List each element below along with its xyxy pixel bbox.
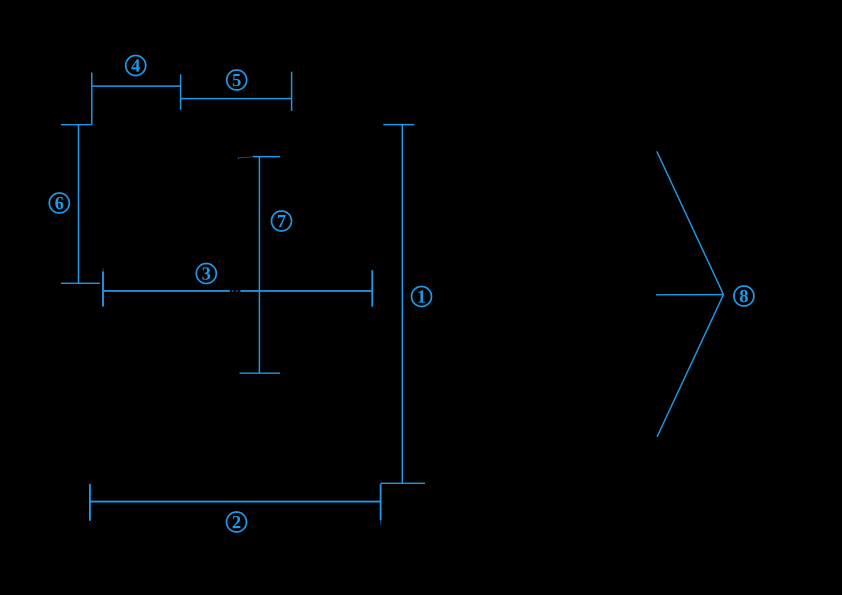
label 1 circled xyxy=(412,287,432,307)
dimension 1 stem xyxy=(401,125,403,484)
label 6 circled xyxy=(49,193,69,213)
dimension 7 top tick faint left part xyxy=(240,157,254,158)
dimension 3 dotted gap dots xyxy=(232,290,238,292)
dimension 4 left extension tick xyxy=(91,73,93,125)
shared tick between dimension 4 and 5 xyxy=(180,74,182,109)
label 4 circled xyxy=(126,56,146,76)
dimension 6 top tick xyxy=(61,124,92,126)
dimension 2 right tick faint lower tail xyxy=(380,520,382,524)
angle dimension 8 upper leg xyxy=(657,151,724,294)
dimension 7 stem xyxy=(258,157,260,374)
dimension 2 line xyxy=(90,501,381,503)
dimension 7 top tick left end dot xyxy=(238,157,240,159)
angle dimension 8 horizontal reference line xyxy=(656,294,724,296)
label 8 circled xyxy=(734,286,754,306)
dimension 3 left tick xyxy=(102,272,104,307)
label 3 circled xyxy=(196,264,216,284)
dimension 6 bottom tick xyxy=(61,282,100,284)
dimension 3 line right segment xyxy=(240,290,372,292)
dimension 6 stem xyxy=(78,125,80,284)
dimension 1 top tick xyxy=(383,124,414,126)
label 7 circled xyxy=(272,211,292,231)
dimension 3 right tick xyxy=(371,270,373,306)
dimension 7 bottom tick xyxy=(240,372,280,374)
dimension 4 line xyxy=(92,85,181,87)
dimension 5 right tick xyxy=(291,72,293,111)
dimension 3 left tick faint top taper xyxy=(102,268,104,272)
angle dimension 8 lower leg xyxy=(657,295,724,437)
dimension 3 line left segment xyxy=(103,290,230,292)
label 2 circled xyxy=(227,512,247,532)
dimension 1 bottom tick xyxy=(381,482,425,484)
dimension 2 right tick xyxy=(380,484,382,520)
label 5 circled xyxy=(227,70,247,90)
dimension 2 left tick xyxy=(89,484,91,521)
dimension 5 line xyxy=(181,98,292,100)
dimension 7 top tick xyxy=(253,156,280,158)
